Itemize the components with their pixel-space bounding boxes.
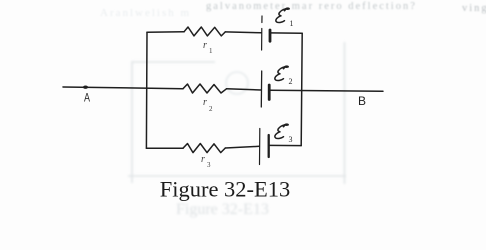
svg-text:3: 3 [289,135,293,144]
ghost bleed-through text top [100,1,486,19]
svg-text:galvanometer mar rero deflec: galvanometer mar rero deflection? [206,1,417,12]
wire: bottom branch left [146,147,183,149]
svg-text:1: 1 [209,47,213,55]
circuit ink [63,16,383,165]
battery E3 short plate [268,135,270,157]
resistor r2 [183,84,227,93]
svg-text:2: 2 [289,77,293,86]
label emf E2 [275,66,288,80]
svg-text:r: r [203,97,207,108]
svg-text:Aranlwelish m: Aranlwelish m [100,7,191,19]
svg-text:r: r [201,154,205,165]
wire: r3 to battery E3 [225,146,259,148]
svg-text:B: B [358,94,366,108]
wire: battery E2 to B end [270,90,383,91]
battery E2 long plate [260,71,262,107]
battery E3 long plate [259,129,261,165]
svg-text:1: 1 [290,19,294,28]
wire: r1 to battery E1 [225,31,261,34]
resistor r3 [183,144,225,153]
label emf E3 [275,124,288,138]
battery E1 short plate [269,30,272,41]
resistor r1 [184,27,225,36]
svg-text:A: A [84,91,90,105]
svg-text:Figure 32-E13: Figure 32-E13 [176,201,269,218]
svg-text:Figure 32-E13: Figure 32-E13 [160,177,291,202]
left rail [145,32,148,148]
svg-text:ving: ving [462,3,486,14]
label emf E1 [276,8,289,22]
svg-text:3: 3 [207,161,211,169]
wire: battery E3 to right rail [269,144,301,146]
wire: top branch left [147,31,184,33]
battery E2 short plate [268,85,271,100]
svg-text:r: r [203,40,207,51]
svg-text:2: 2 [209,105,213,113]
wire: middle to battery E2 [227,89,262,90]
ghost bleed-through box [128,42,346,184]
wire: battery E1 to right rail [271,32,303,34]
wire: middle horizontal A-side [63,87,183,89]
battery E1 long plate [261,16,263,50]
right rail [301,33,302,145]
node A dot [83,86,88,89]
